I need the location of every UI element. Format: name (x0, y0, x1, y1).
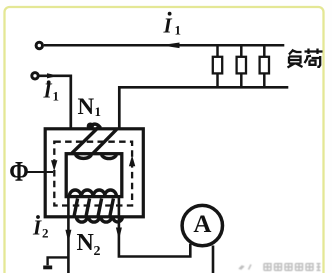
wire ammeter bottom (212, 246, 215, 273)
svg-text:N: N (77, 230, 95, 256)
resistor R1 (213, 45, 222, 87)
primary winding N1 (72, 124, 117, 158)
resistor R3 (260, 45, 269, 87)
resistor R2 (237, 45, 246, 87)
flux arrow right (up) (129, 155, 135, 166)
arrow I2 right (116, 228, 122, 241)
svg-text:A: A (193, 211, 211, 238)
svg-text:1: 1 (175, 23, 182, 38)
wire secondary left (67, 196, 70, 273)
svg-text:I: I (163, 14, 173, 38)
label I1 top (163, 12, 182, 38)
watermark (239, 264, 321, 271)
arrow I1 on P2 wire (47, 73, 59, 78)
secondary winding N2 (69, 190, 122, 222)
wire secondary right to ammeter (119, 196, 190, 256)
label N2 (77, 230, 101, 259)
ground (43, 257, 68, 267)
ammeter A (182, 205, 222, 245)
wire from P2 to primary winding (39, 76, 71, 130)
core window (66, 154, 122, 197)
arrow I1 on top bus (161, 43, 180, 49)
terminal P2 (32, 73, 38, 79)
label N1 (78, 94, 102, 119)
svg-text:2: 2 (42, 226, 49, 241)
wire top bus (44, 44, 284, 47)
flux path dashed (54, 142, 132, 206)
label I1 left (43, 79, 60, 104)
label load 负荷 (288, 49, 323, 68)
flux arrow left (down) (51, 160, 57, 171)
junction dot on core top (87, 123, 94, 130)
Phi lead line (28, 171, 54, 173)
svg-text:Φ: Φ (9, 156, 28, 187)
wire lower bus (119, 87, 288, 130)
svg-text:2: 2 (94, 244, 101, 259)
svg-text:N: N (78, 94, 95, 119)
svg-text:1: 1 (95, 104, 102, 119)
arrow I2 left (65, 230, 71, 243)
label I2 (32, 215, 49, 240)
terminal P1 (36, 42, 42, 48)
transformer core outer (45, 129, 143, 217)
svg-text:1: 1 (53, 89, 60, 104)
svg-text:I: I (32, 216, 42, 240)
